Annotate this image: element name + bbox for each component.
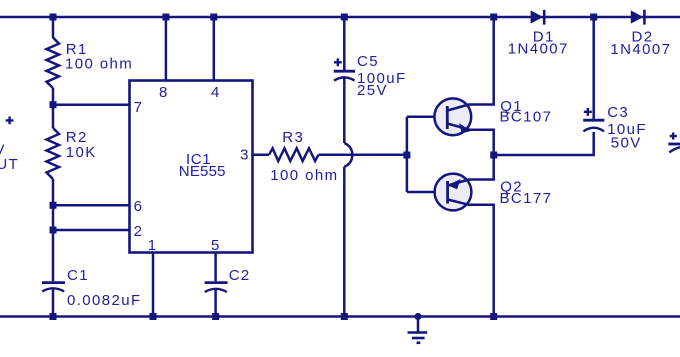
node dot output node (490, 152, 497, 159)
svg-text:10K: 10K (66, 144, 97, 161)
node dot top rail C3/D1 (590, 14, 597, 21)
plus C5 (334, 58, 342, 66)
wire pin6 (53, 204, 129, 207)
wire Q1 base (407, 116, 447, 119)
svg-text:100 ohm: 100 ohm (270, 167, 338, 184)
node dot pin6 (50, 202, 57, 209)
capacitor C2 (205, 283, 228, 317)
node dot top rail x53 (50, 14, 57, 21)
svg-text:BC107: BC107 (500, 109, 553, 126)
wire Q2 base (407, 191, 448, 194)
svg-text:4: 4 (211, 84, 221, 101)
node dot bottom rail x53 (50, 313, 57, 320)
wire hop over R3 line (344, 143, 352, 167)
wire top supply rail (0, 16, 680, 19)
wire base column Q1-Q2 (406, 117, 409, 192)
wire pin2 (53, 229, 129, 232)
wire Q2 emitter (468, 155, 493, 180)
capacitor C4 partial at right edge (668, 144, 680, 152)
wire Q1 emitter (469, 130, 494, 155)
diode D1 (531, 10, 544, 23)
node dot bottom rail Q2 collector (490, 313, 497, 320)
svg-text:C5: C5 (357, 53, 379, 70)
svg-text:7: 7 (134, 99, 144, 116)
wire output node to C3 (494, 132, 594, 155)
node dot ground (414, 313, 421, 320)
svg-text:BC177: BC177 (500, 190, 553, 207)
node dot R1-R2 pin7 (50, 101, 57, 108)
wire left column top (52, 17, 55, 38)
node dot bottom rail C5 (341, 313, 348, 320)
ground (408, 317, 428, 343)
wire pin3 (253, 154, 270, 157)
wire C5 branch bottom (343, 167, 346, 317)
wire pin1 (152, 253, 155, 317)
wire pin4 (213, 17, 216, 81)
svg-text:R3: R3 (282, 129, 304, 146)
svg-text:5: 5 (211, 237, 221, 254)
svg-text:NE555: NE555 (179, 163, 226, 180)
node dot top rail pin8 (162, 14, 169, 21)
diode D2 (631, 10, 644, 23)
svg-text:50V: 50V (611, 135, 642, 152)
wire R1 to R2 (52, 88, 55, 128)
capacitor C1 (42, 283, 65, 317)
svg-text:C2: C2 (229, 267, 251, 284)
resistor R2 (47, 128, 60, 179)
plus C3 (584, 108, 592, 116)
node dot top rail C5 (341, 14, 348, 21)
capacitor C3 (583, 17, 604, 131)
wire R3 to base node (318, 154, 407, 157)
svg-text:6: 6 (134, 198, 144, 215)
op-amp U1 body: IC box NE555 (130, 81, 253, 253)
capacitor C5 (334, 71, 355, 143)
resistor R1 (47, 38, 60, 89)
plus C4 partial (670, 133, 677, 140)
svg-text:100 ohm: 100 ohm (65, 56, 133, 73)
svg-text:C1: C1 (67, 267, 89, 284)
wire pin8 (165, 17, 168, 81)
wire R2 to C1 (52, 179, 55, 281)
resistor R3 (269, 148, 318, 161)
node dot bottom rail pin1 (150, 313, 157, 320)
wire C5 branch top (343, 17, 346, 70)
node dot bottom rail C2 (212, 313, 219, 320)
svg-text:2: 2 (134, 223, 144, 240)
plus input (6, 117, 14, 125)
wire Q1 collector (468, 17, 494, 105)
node dot top rail Q1 collector (490, 14, 497, 21)
svg-text:3: 3 (240, 147, 250, 164)
node dot pin2 (50, 227, 57, 234)
wire pin5 to C2 (214, 253, 217, 282)
svg-text:1N4007: 1N4007 (508, 41, 569, 58)
wire Q2 collector (468, 205, 494, 317)
transistor Q1 (434, 98, 471, 135)
svg-text:8: 8 (159, 84, 169, 101)
svg-text:1N4007: 1N4007 (610, 41, 671, 58)
node dot base node (403, 152, 410, 159)
svg-text:0.0082uF: 0.0082uF (67, 292, 142, 309)
svg-text:1: 1 (148, 237, 158, 254)
svg-text:25V: 25V (357, 82, 388, 99)
svg-text:UT: UT (0, 156, 19, 173)
node dot top rail pin4 (210, 14, 217, 21)
transistor Q2 (435, 174, 472, 211)
wire bottom ground rail (0, 315, 680, 318)
svg-text:C3: C3 (607, 104, 629, 121)
wire pin7 (53, 103, 129, 106)
